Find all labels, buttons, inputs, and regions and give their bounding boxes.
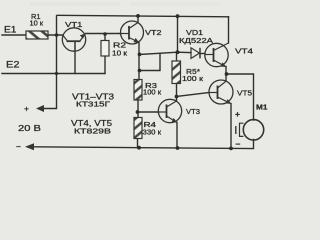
svg-text:R2: R2 [113,41,126,50]
svg-text:10 к: 10 к [112,51,128,58]
svg-text:VT1: VT1 [65,20,83,29]
svg-text:R4: R4 [144,120,157,129]
svg-text:330 к: 330 к [143,130,163,137]
svg-text:M1: M1 [256,103,268,112]
svg-text:10 к: 10 к [30,21,44,28]
svg-text:100 к: 100 к [143,90,162,97]
svg-text:КД522А: КД522А [179,38,213,45]
svg-text:+: + [24,104,29,114]
svg-text:VD1: VD1 [186,28,203,37]
svg-text:VT2: VT2 [145,28,162,37]
svg-text:−: − [236,139,241,149]
svg-text:E1: E1 [4,25,17,35]
svg-text:E2: E2 [6,60,20,70]
svg-text:R5*: R5* [186,67,200,76]
svg-text:VT5: VT5 [237,89,252,98]
svg-text:КТ315Г: КТ315Г [76,100,110,109]
svg-text:+: + [235,109,240,119]
svg-text:VT3: VT3 [186,107,200,116]
svg-text:20 В: 20 В [18,124,41,133]
svg-text:КТ829В: КТ829В [74,127,111,136]
svg-text:−: − [16,142,21,152]
svg-text:VT4: VT4 [235,47,253,56]
svg-text:100 к: 100 к [182,76,204,83]
